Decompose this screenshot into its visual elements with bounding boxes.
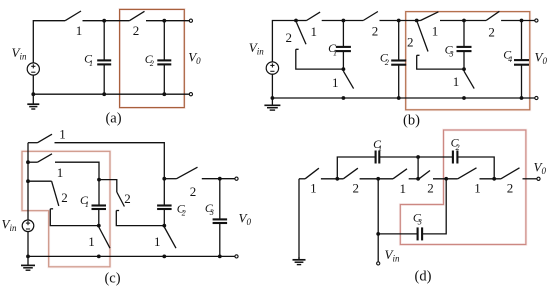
svg-text:1: 1 [57, 165, 64, 180]
svg-text:2: 2 [427, 181, 434, 196]
svg-text:1: 1 [332, 75, 339, 90]
svg-text:2: 2 [456, 143, 460, 152]
svg-text:1: 1 [453, 74, 460, 89]
svg-text:2: 2 [352, 180, 359, 195]
svg-text:2: 2 [124, 191, 131, 206]
svg-text:2: 2 [182, 209, 186, 218]
svg-text:(c): (c) [104, 270, 120, 286]
svg-text:3: 3 [209, 208, 214, 217]
svg-text:1: 1 [399, 181, 406, 196]
svg-text:(a): (a) [105, 110, 121, 126]
svg-text:1: 1 [59, 127, 66, 142]
svg-text:2: 2 [488, 25, 495, 40]
svg-text:3: 3 [449, 50, 454, 59]
svg-text:2: 2 [507, 181, 514, 196]
svg-text:1: 1 [76, 23, 83, 38]
svg-text:1: 1 [89, 59, 93, 68]
svg-text:3: 3 [417, 218, 422, 227]
svg-text:1: 1 [85, 200, 89, 209]
svg-text:2: 2 [286, 30, 293, 45]
svg-text:1: 1 [432, 24, 439, 39]
svg-text:1: 1 [378, 144, 382, 153]
svg-text:2: 2 [133, 23, 140, 38]
svg-text:2: 2 [372, 23, 379, 38]
svg-text:1: 1 [88, 234, 95, 249]
svg-text:1: 1 [311, 24, 318, 39]
svg-text:1: 1 [310, 180, 317, 195]
svg-text:2: 2 [61, 190, 68, 205]
svg-text:2: 2 [150, 59, 154, 68]
svg-text:2: 2 [407, 35, 414, 50]
svg-text:(d): (d) [415, 268, 432, 284]
svg-text:4: 4 [508, 55, 512, 64]
svg-text:1: 1 [333, 49, 337, 58]
svg-text:2: 2 [190, 184, 197, 199]
svg-text:1: 1 [154, 234, 161, 249]
svg-text:(b): (b) [403, 113, 420, 129]
svg-text:1: 1 [474, 181, 481, 196]
svg-text:2: 2 [385, 58, 389, 67]
